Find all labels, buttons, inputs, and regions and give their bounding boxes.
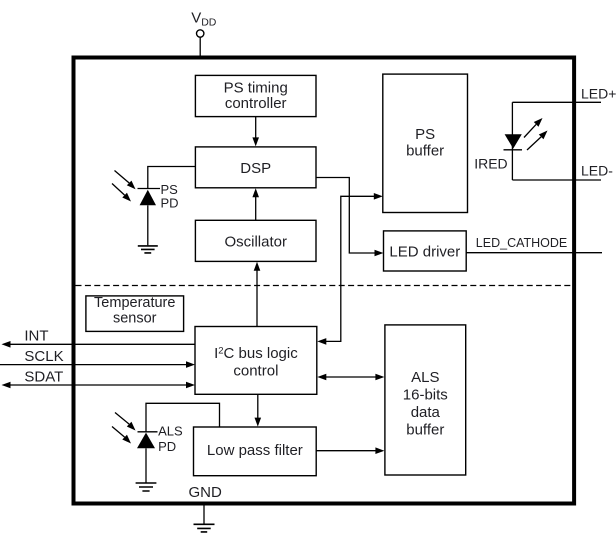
light arrow lines into ALS PD	[112, 413, 129, 438]
block Oscillator	[195, 220, 316, 261]
svg-text:PD: PD	[158, 439, 176, 454]
arrowhead into ALS buffer left (I2C link)	[375, 374, 384, 381]
arrowhead into I2C right (from PS buffer)	[317, 338, 326, 345]
arrowhead SCLK into I2C	[186, 361, 195, 368]
photodiode PS PD triangle	[140, 190, 156, 206]
arrowhead into ALS buffer left (LPF link)	[375, 447, 384, 454]
wire IRED loop left/top/bottom (LED+ / LED-)	[512, 102, 601, 180]
photodiode PS PD cathode bar	[138, 188, 161, 190]
arrowhead INT out	[2, 341, 11, 348]
block ALS 16-bits data buffer	[385, 325, 466, 475]
svg-text:I2C bus logic: I2C bus logic	[214, 345, 298, 362]
svg-text:IRED: IRED	[474, 155, 507, 171]
wire Low pass filter to ALS data buffer	[316, 450, 376, 452]
light arrow lines into PS PD	[112, 171, 129, 196]
wire SDAT	[10, 384, 187, 386]
svg-text:PD: PD	[161, 195, 179, 210]
block DSP	[195, 147, 316, 188]
block PS buffer	[383, 74, 468, 212]
svg-text:Low pass filter: Low pass filter	[207, 442, 303, 459]
photodiode ALS PD cathode bar	[138, 431, 158, 433]
svg-text:GND: GND	[189, 484, 223, 501]
svg-text:Oscillator: Oscillator	[224, 233, 287, 250]
svg-text:Temperature: Temperature	[94, 295, 175, 311]
svg-text:LED+: LED+	[581, 85, 616, 101]
svg-text:PS timing: PS timing	[224, 80, 288, 97]
svg-text:LED_CATHODE: LED_CATHODE	[476, 236, 567, 250]
arrowhead into I2C right (ALS link)	[317, 374, 326, 381]
wire PS photodiode to DSP	[148, 167, 196, 189]
diode IRED cathode bar	[504, 149, 523, 151]
wire VDD to top border	[199, 37, 201, 55]
svg-text:INT: INT	[24, 327, 48, 344]
svg-text:ALS: ALS	[158, 424, 183, 439]
svg-text:ALS: ALS	[411, 369, 439, 386]
wire GND to bottom border	[203, 506, 205, 524]
wire I2C control to ALS data buffer	[326, 376, 377, 378]
wire INT	[10, 343, 195, 345]
wire DSP to LED driver	[316, 178, 375, 254]
outer chip boundary	[74, 58, 575, 504]
arrowhead into LED driver left	[375, 250, 384, 257]
wire PS timing controller to DSP	[255, 117, 257, 139]
svg-text:data: data	[411, 404, 441, 421]
block Low pass filter	[194, 427, 317, 476]
svg-text:LED-: LED-	[581, 163, 613, 179]
svg-text:controller: controller	[225, 95, 287, 112]
light arrowheads at PS PD	[127, 181, 136, 190]
dashed separator line	[76, 285, 573, 287]
ground under ALS PD	[136, 483, 157, 491]
arrowhead SDAT into I2C	[186, 382, 195, 389]
ground symbol below chip (GND)	[194, 524, 215, 532]
svg-text:SDAT: SDAT	[24, 369, 63, 386]
photodiode ALS PD wire to ground	[145, 448, 147, 482]
VDD terminal circle	[197, 30, 204, 37]
svg-text:buffer: buffer	[406, 422, 444, 439]
emission arrowheads from IRED	[534, 118, 543, 127]
block Temperature sensor	[86, 296, 184, 332]
wire Oscillator to DSP	[255, 196, 257, 220]
arrowhead into DSP top	[252, 137, 259, 146]
svg-text:VDD: VDD	[191, 9, 217, 28]
ground under PS PD	[138, 246, 158, 253]
arrowhead into DSP bottom	[252, 188, 259, 197]
wire I2C control to PS buffer	[326, 196, 375, 341]
photodiode PS PD wire to ground	[147, 205, 149, 245]
svg-text:PS: PS	[415, 126, 435, 143]
arrowhead into Oscillator bottom	[254, 262, 261, 271]
block PS timing controller	[195, 75, 316, 116]
svg-text:DSP: DSP	[240, 160, 271, 177]
light arrowheads at ALS PD	[127, 422, 136, 431]
emission arrow lines from IRED	[524, 124, 541, 150]
wire LED_CATHODE	[466, 252, 602, 254]
wire ALS photodiode to Low pass filter	[146, 403, 220, 432]
svg-text:buffer: buffer	[406, 143, 444, 160]
svg-text:SCLK: SCLK	[24, 348, 63, 365]
diode IRED triangle	[505, 134, 522, 148]
arrowhead into Low pass filter top	[255, 418, 262, 427]
svg-text:control: control	[233, 363, 278, 380]
block I2C bus logic control	[195, 327, 317, 395]
block LED driver	[384, 231, 467, 271]
arrowhead into PS buffer left	[374, 193, 383, 200]
arrowhead SDAT out	[2, 382, 11, 389]
svg-text:sensor: sensor	[113, 310, 157, 326]
svg-text:LED driver: LED driver	[389, 243, 460, 260]
wire I2C control to Low pass filter	[257, 394, 259, 419]
photodiode ALS PD triangle	[137, 433, 155, 449]
wire I2C control to Oscillator	[256, 270, 258, 327]
wire SCLK	[0, 364, 187, 366]
svg-text:16-bits: 16-bits	[403, 387, 448, 404]
